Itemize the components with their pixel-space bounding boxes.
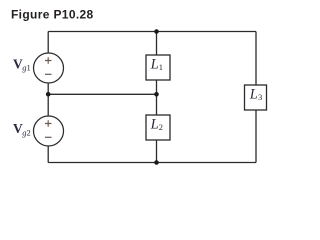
wire: left vertical from Vg2 - to bottom rail [47,146,49,163]
node: junction dot bottom rail / L2 [154,160,159,165]
inductor L3 [245,85,267,110]
svg-text:3: 3 [258,92,262,102]
node: junction dot top rail / L1 [154,29,159,34]
svg-text:L: L [249,87,258,103]
svg-text:2: 2 [159,122,163,132]
wire: L1 top lead from top rail [156,32,158,56]
wire: L1 bottom lead to middle rail [156,80,158,94]
svg-text:L: L [150,117,159,133]
svg-text:Vg2: Vg2 [13,121,31,137]
inductor L2 [146,115,170,140]
svg-text:L: L [150,57,159,73]
inductor L1 [146,55,170,80]
wire: right vertical from L3 to bottom rail [255,110,257,163]
svg-text:Vg1: Vg1 [13,56,31,72]
wire: left vertical from top rail to Vg1 + [47,32,49,54]
wire: top horizontal (node a rail) [48,31,256,33]
wire: L2 bottom lead to bottom rail [156,140,158,163]
voltage source Vg2 [34,116,64,146]
voltage source Vg1 [34,53,64,83]
node: junction dot middle rail / L1-L2 [154,92,159,97]
wire: right vertical from top rail to L3 [255,32,257,86]
svg-text:1: 1 [159,62,163,72]
wire: left vertical between Vg1 and Vg2 [47,83,49,116]
wire: L2 top lead from middle rail [156,94,158,115]
svg-text:Figure P10.28: Figure P10.28 [11,7,94,21]
node: junction dot between Vg1 and Vg2 on middle rail [46,92,51,97]
wire: bottom horizontal rail [48,162,256,164]
wire: middle horizontal between sources node and L1/L2 node [48,93,156,95]
